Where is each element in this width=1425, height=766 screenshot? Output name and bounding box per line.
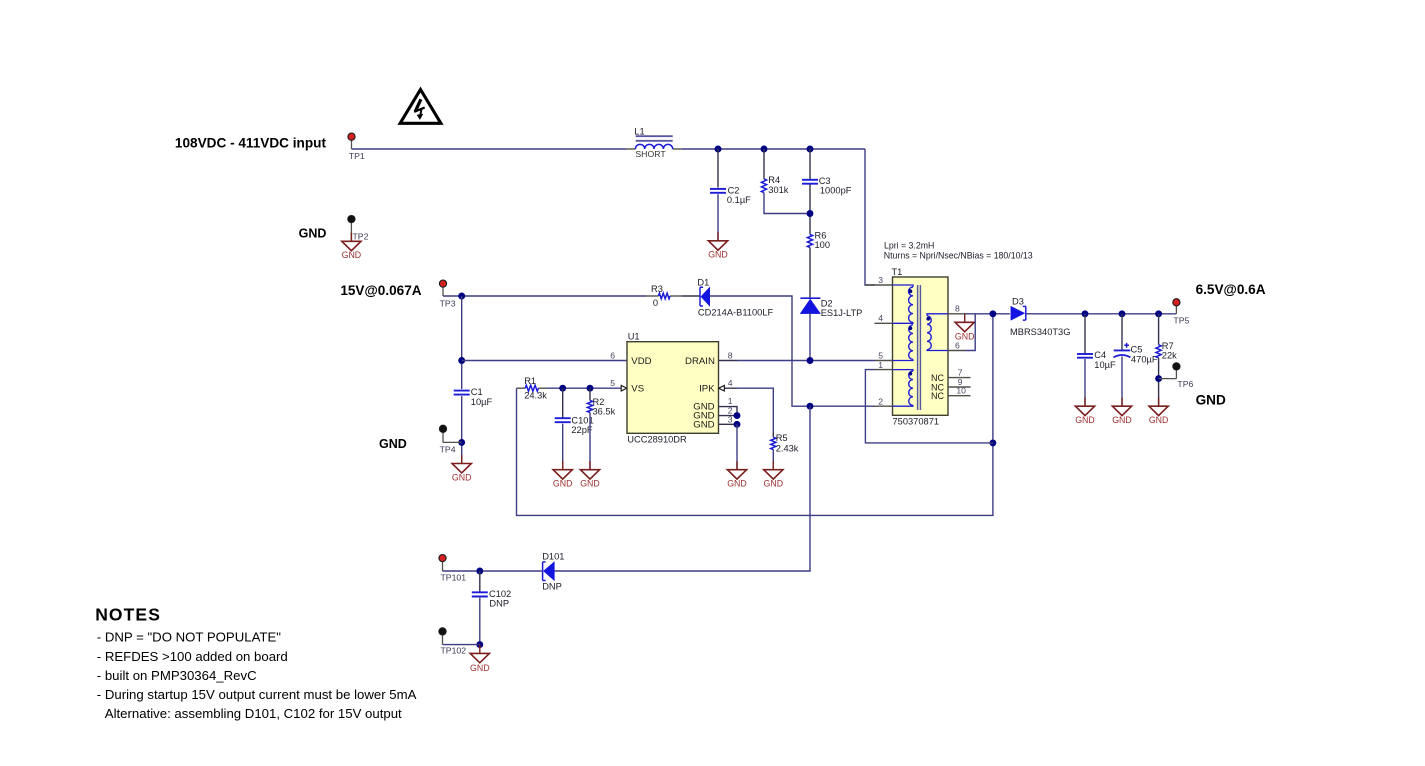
svg-text:C5: C5: [1131, 344, 1143, 354]
svg-text:TP1: TP1: [349, 151, 365, 161]
wire: R3 to D1: [682, 295, 700, 297]
T1 primary winding pin3-pin4: [893, 285, 914, 323]
svg-text:GND: GND: [299, 227, 327, 241]
svg-text:CD214A-B1100LF: CD214A-B1100LF: [698, 308, 774, 318]
op-amp U1 UCC28910DR body: [627, 332, 719, 445]
test point TP3: [439, 280, 455, 309]
svg-text:3: 3: [728, 414, 733, 424]
svg-text:T1: T1: [892, 267, 903, 277]
wire: VS feedback sense line: [517, 314, 993, 516]
svg-text:7: 7: [958, 367, 963, 377]
junction: R4 tap: [761, 146, 768, 153]
U1 IPK pin 4 stub with arrow: [719, 378, 738, 391]
capacitor C1 10uF: [454, 387, 493, 407]
diode D3 MBRS340T3G: [1010, 296, 1070, 337]
svg-text:R4: R4: [768, 175, 780, 185]
svg-text:- During startup 15V output cu: - During startup 15V output current must…: [97, 687, 417, 702]
svg-text:6: 6: [610, 350, 615, 360]
svg-text:Lpri = 3.2mH: Lpri = 3.2mH: [884, 240, 934, 250]
svg-text:15V@0.067A: 15V@0.067A: [340, 283, 421, 298]
wire: pin6 up to output line: [965, 314, 975, 351]
svg-text:D1: D1: [697, 277, 709, 287]
svg-text:8: 8: [955, 304, 960, 314]
ground (T1 pin 8): [955, 314, 975, 342]
ground (C2): [708, 241, 727, 250]
svg-text:R5: R5: [776, 433, 788, 443]
svg-text:TP102: TP102: [441, 646, 467, 656]
svg-text:NOTES: NOTES: [95, 605, 161, 625]
wire: R4 bottom to C3 line: [764, 193, 810, 214]
notes block: [95, 605, 416, 722]
svg-text:GND: GND: [764, 479, 784, 489]
wire: C2 to ground: [717, 194, 719, 241]
wire: C101 branch: [562, 388, 564, 418]
junction: R7 tap: [1155, 310, 1162, 317]
wire: R4 top: [763, 149, 765, 179]
svg-text:GND: GND: [1196, 393, 1226, 408]
svg-text:6: 6: [955, 340, 960, 350]
ground (U1): [727, 470, 746, 479]
svg-text:Alternative: assembling D101,: Alternative: assembling D101, C102 for 1…: [105, 706, 402, 721]
input pin arrow (VS): [621, 385, 627, 391]
capacitor C4 10uF: [1077, 350, 1116, 370]
svg-text:- REFDES >100 added on board: - REFDES >100 added on board: [97, 649, 288, 664]
svg-text:GND: GND: [1149, 415, 1169, 425]
svg-text:10: 10: [956, 386, 966, 396]
junction: C101 tap: [559, 385, 566, 392]
svg-text:22k: 22k: [1162, 350, 1177, 360]
junction: pin1 bias sense join: [989, 439, 996, 446]
T1 pin 1 stub: [875, 369, 893, 371]
svg-text:NC: NC: [931, 391, 944, 401]
wire: C5 branch: [1121, 314, 1123, 351]
svg-text:C4: C4: [1094, 350, 1106, 360]
svg-text:TP2: TP2: [353, 232, 369, 242]
resistor R7 22k: [1156, 341, 1177, 361]
wire: R2 to ground: [589, 413, 591, 470]
svg-text:IPK: IPK: [699, 384, 715, 395]
capacitor C5 470uF polarized: [1114, 343, 1158, 365]
svg-text:GND: GND: [727, 479, 747, 489]
svg-text:U1: U1: [628, 332, 640, 342]
wire: C1 to TP4 junction and ground: [461, 396, 463, 463]
transformer T1 750370871 body: [892, 267, 949, 426]
wire: TP3 to R3: [443, 295, 646, 297]
svg-text:Nturns = Npri/Nsec/NBias = 180: Nturns = Npri/Nsec/NBias = 180/10/13: [884, 250, 1033, 260]
wire: R7 to TP6 junction: [1158, 358, 1160, 406]
svg-text:R7: R7: [1162, 341, 1174, 351]
svg-text:TP5: TP5: [1173, 316, 1189, 326]
junction: bias/D101 tap: [807, 403, 814, 410]
svg-text:- built on PMP30364_RevC: - built on PMP30364_RevC: [97, 668, 257, 683]
ground (R7): [1149, 406, 1168, 415]
svg-text:GND: GND: [1112, 415, 1132, 425]
svg-text:D3: D3: [1012, 296, 1024, 306]
test point TP2: [348, 216, 369, 242]
svg-text:108VDC - 411VDC input: 108VDC - 411VDC input: [175, 136, 327, 151]
test point TP5: [1173, 299, 1190, 326]
wire: C3 top: [809, 149, 811, 180]
test point TP102: [439, 628, 480, 656]
junction: VDD tap: [458, 357, 465, 364]
inductor L1 (SHORT): [626, 126, 682, 159]
ground (TP2): [342, 241, 361, 250]
svg-text:VDD: VDD: [631, 356, 651, 367]
svg-text:MBRS340T3G: MBRS340T3G: [1010, 327, 1070, 337]
svg-text:TP3: TP3: [440, 299, 456, 309]
junction: TP6: [1155, 375, 1162, 382]
wire: input rail from L1 to corner: [682, 148, 865, 150]
junction: C2 tap: [715, 146, 722, 153]
diode D1 CD214A-B1100LF: [697, 277, 773, 317]
svg-text:GND: GND: [580, 479, 600, 489]
svg-text:10µF: 10µF: [1094, 360, 1116, 370]
wire: C4 to ground: [1084, 359, 1086, 406]
ground (TP102): [470, 645, 490, 673]
svg-text:0: 0: [653, 298, 658, 308]
T1 pin 4 stub (nc): [875, 322, 893, 324]
wire: T1 pin1 to sense: [865, 370, 993, 443]
svg-text:5: 5: [878, 350, 883, 360]
wire: R2 branch: [589, 388, 591, 400]
svg-text:1: 1: [878, 360, 883, 370]
wire: bias tap down to D101: [554, 406, 810, 571]
wire: VDD to U1 pin 6: [462, 360, 627, 362]
T1 pin 8 stub: [948, 313, 965, 315]
svg-text:R3: R3: [651, 284, 663, 294]
T1 secondary winding pin8-pin6: [926, 314, 948, 351]
svg-text:4: 4: [728, 378, 733, 388]
svg-text:GND: GND: [553, 479, 573, 489]
capacitor C3 1000pF: [802, 176, 852, 195]
svg-text:8: 8: [728, 350, 733, 360]
wire: IPK to R5: [737, 388, 773, 432]
svg-text:2: 2: [878, 396, 883, 406]
svg-text:GND: GND: [1075, 415, 1095, 425]
T1 primary winding pin4-pin5: [893, 325, 914, 361]
svg-text:R1: R1: [524, 376, 536, 386]
wire: DRAIN to T1 pin 5: [737, 360, 875, 362]
svg-text:SHORT: SHORT: [635, 149, 666, 159]
resistor R3 0: [646, 284, 682, 308]
capacitor C101 22pF: [555, 416, 594, 436]
svg-text:TP4: TP4: [440, 445, 456, 455]
svg-text:4: 4: [878, 313, 883, 323]
svg-text:GND: GND: [470, 663, 490, 673]
wire: D2 anode to drain net: [809, 313, 811, 361]
test point TP101: [439, 555, 466, 583]
test point TP4: [439, 425, 461, 454]
svg-text:DNP: DNP: [489, 598, 509, 608]
svg-text:GND: GND: [452, 472, 472, 482]
wire: pin8 to D3: [965, 313, 1010, 315]
wire: D1 to T1 pin 2 (bias): [710, 296, 875, 406]
T1 pin 3 stub: [865, 284, 892, 286]
junction: 15V rail / C1 branch: [458, 293, 465, 300]
svg-text:DNP: DNP: [542, 582, 562, 592]
wire: C2 branch: [717, 149, 719, 188]
wire: R5 to ground: [772, 450, 774, 470]
resistor R2 36.5k: [587, 397, 615, 416]
svg-text:TP6: TP6: [1177, 379, 1193, 389]
T1 core bars: [917, 285, 919, 410]
wire: C4 branch: [1084, 314, 1086, 354]
wire: C101 to ground: [562, 424, 564, 470]
ground (C4): [1075, 406, 1094, 415]
svg-text:- DNP = "DO NOT POPULATE": - DNP = "DO NOT POPULATE": [97, 630, 281, 645]
svg-text:1000pF: 1000pF: [820, 185, 852, 195]
T1 NC pin 9: [931, 377, 971, 392]
junction: C102 tap: [476, 568, 483, 575]
test point TP1: [348, 133, 365, 161]
wire: R6 to D2 cathode: [809, 248, 811, 298]
T1 pin 2 stub: [875, 405, 893, 407]
resistor R6 100: [807, 231, 830, 251]
svg-text:C1: C1: [471, 387, 483, 397]
U1 DRAIN pin 8 stub: [719, 360, 738, 362]
svg-text:GND: GND: [342, 250, 362, 260]
resistor R1 24.3k: [517, 376, 548, 400]
junction: D2 anode on drain: [807, 357, 814, 364]
junction: R4/C3 join: [807, 210, 814, 217]
svg-text:GND: GND: [379, 437, 407, 451]
diode D101 DNP: [542, 552, 564, 592]
wire: corner down to T1 pin 3: [865, 149, 875, 285]
T1 pin 5 stub: [875, 360, 893, 362]
wire: U1 gnd to ground: [736, 424, 738, 469]
capacitor C102 DNP: [472, 589, 511, 608]
svg-text:3: 3: [878, 275, 883, 285]
wire: C102 branch: [479, 571, 481, 592]
svg-text:L1: L1: [634, 126, 644, 136]
test point TP6: [1159, 363, 1194, 389]
svg-text:D2: D2: [821, 298, 833, 308]
resistor R4 301k: [761, 175, 788, 195]
svg-text:10µF: 10µF: [471, 397, 493, 407]
wire: D101 to TP101: [443, 570, 543, 572]
T1 pin 6 stub: [948, 350, 965, 352]
svg-text:301k: 301k: [768, 185, 789, 195]
wire: R1 to U1 VS pin 5: [547, 387, 627, 389]
wire: D3 to TP5 output rail: [1026, 313, 1177, 315]
svg-text:100: 100: [815, 240, 831, 250]
wire: C102 to TP102 junction: [479, 598, 481, 645]
wire: C5 to ground: [1121, 357, 1123, 407]
ground (C101): [553, 470, 572, 479]
svg-text:5: 5: [610, 378, 615, 388]
junction: U1 gnd pins 2: [734, 412, 741, 419]
junction: R2 tap: [587, 385, 594, 392]
svg-text:2.43k: 2.43k: [776, 444, 799, 454]
ground (R2): [580, 470, 599, 479]
junction: output sense tap: [989, 310, 996, 317]
wire: R7 branch: [1158, 314, 1160, 345]
svg-text:470µF: 470µF: [1131, 354, 1158, 364]
ground (C1/TP4): [452, 464, 471, 473]
capacitor C2: [710, 186, 751, 205]
svg-text:36.5k: 36.5k: [593, 407, 616, 417]
junction: C4 tap: [1082, 310, 1089, 317]
junction: TP102: [476, 641, 483, 648]
junction: TP4: [458, 439, 465, 446]
svg-text:DRAIN: DRAIN: [685, 356, 715, 367]
svg-text:TP101: TP101: [441, 573, 467, 583]
junction: C5 tap: [1119, 310, 1126, 317]
junction: U1 gnd pins 3: [734, 421, 741, 428]
wire: 15V down to VDD tap: [461, 296, 463, 389]
svg-text:VS: VS: [631, 384, 644, 395]
T1 NC pin 7: [931, 367, 971, 383]
resistor R5 2.43k: [771, 433, 799, 454]
svg-text:GND: GND: [708, 250, 728, 260]
svg-text:UCC28910DR: UCC28910DR: [627, 434, 687, 444]
svg-text:ES1J-LTP: ES1J-LTP: [821, 308, 863, 318]
svg-text:24.3k: 24.3k: [524, 390, 547, 400]
ground (R5): [764, 470, 783, 479]
high voltage warning symbol: [400, 90, 441, 124]
junction: C3 tap: [807, 146, 814, 153]
diode D2 ES1J-LTP: [800, 298, 862, 318]
svg-text:GND: GND: [693, 419, 714, 430]
wire: C3 to R6: [809, 184, 811, 234]
wire: input rail from TP1 to L1: [352, 148, 627, 150]
svg-text:R6: R6: [815, 231, 827, 241]
svg-text:D101: D101: [542, 552, 564, 562]
T1 bias winding pin1-pin2: [893, 370, 914, 407]
svg-text:6.5V@0.6A: 6.5V@0.6A: [1196, 282, 1266, 297]
svg-text:0.1µF: 0.1µF: [727, 195, 751, 205]
T1 NC pin 10: [931, 386, 971, 402]
svg-text:750370871: 750370871: [893, 416, 940, 426]
ground (C5): [1112, 406, 1131, 415]
U1 GND pins 1,2,3: [719, 396, 738, 424]
